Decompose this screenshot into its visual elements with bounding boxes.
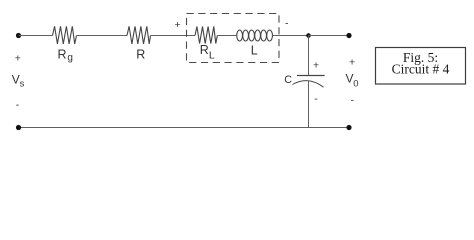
svg-text:0: 0 <box>353 79 358 90</box>
resistor Rg <box>53 26 77 63</box>
svg-text:-: - <box>16 99 20 111</box>
wire <box>19 35 53 37</box>
wire <box>273 35 309 37</box>
svg-text:R: R <box>200 43 209 57</box>
svg-text:Circuit # 4: Circuit # 4 <box>392 61 450 76</box>
wire <box>77 35 128 37</box>
svg-text:-: - <box>314 93 318 105</box>
svg-text:R: R <box>136 47 145 61</box>
wire <box>217 35 236 37</box>
dashed box around RL and L <box>187 14 280 63</box>
svg-text:R: R <box>58 47 67 61</box>
svg-text:-: - <box>285 17 289 29</box>
svg-text:g: g <box>67 52 73 63</box>
bottom wire <box>19 127 350 129</box>
svg-text:L: L <box>209 50 215 62</box>
polarity + (left of dashed box) <box>175 19 181 31</box>
wire (capacitor top lead) <box>308 36 310 76</box>
node (output - terminal) <box>346 125 351 130</box>
svg-text:L: L <box>251 44 258 58</box>
capacitor C <box>284 60 324 105</box>
svg-text:+: + <box>313 60 319 72</box>
figure caption box: Fig. 5: Circuit # 4 <box>376 48 466 85</box>
svg-text:+: + <box>349 56 355 68</box>
svg-text:C: C <box>284 74 292 86</box>
node B (junction of C branch) <box>306 33 311 38</box>
source label Vs with polarity <box>12 52 25 111</box>
svg-text:+: + <box>15 52 21 64</box>
svg-text:-: - <box>351 95 355 107</box>
resistor R <box>127 26 151 61</box>
polarity - (right of dashed box) <box>285 17 289 29</box>
inductor L <box>237 30 273 58</box>
node (source - terminal) <box>16 125 21 130</box>
output label V0 with polarity <box>346 56 359 106</box>
resistor RL <box>195 27 217 62</box>
wire <box>309 35 350 37</box>
node A (source + terminal) <box>16 33 21 38</box>
svg-text:s: s <box>20 79 25 90</box>
svg-text:+: + <box>175 19 181 31</box>
wire (capacitor bottom lead) <box>308 81 310 128</box>
wire <box>151 35 196 37</box>
node (output + terminal) <box>346 33 351 38</box>
